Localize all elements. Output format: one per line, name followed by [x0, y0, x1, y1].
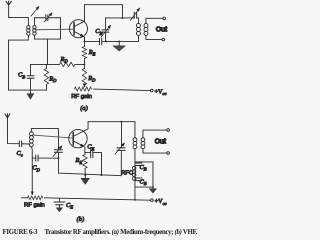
transformer T3 secondary: [143, 130, 167, 138]
wire collector rail (b): [88, 121, 135, 123]
node bypass ground junction: [152, 186, 154, 188]
wire antenna (a) lead-in: [9, 5, 29, 26]
node collector tank junction (b): [121, 121, 123, 123]
transistor Q2: [69, 129, 87, 147]
svg-text:CD: CD: [32, 165, 40, 173]
capacitor CB upper (b): [135, 163, 142, 166]
node tank ground junction: [118, 41, 120, 43]
node Vcc rail junction: [134, 199, 136, 201]
resistor RD horizontal: [59, 62, 75, 66]
transformer T2 primary: [137, 18, 139, 24]
svg-text:+Vcc: +Vcc: [155, 198, 167, 206]
potentiometer RF gain (a): [74, 87, 91, 91]
antenna (b): [5, 114, 10, 118]
variable capacitor (a tank): [104, 18, 106, 30]
inductor L1 (b input coil): [30, 129, 32, 132]
resistor RE (a): [82, 46, 86, 58]
wire bypass bottom branch: [135, 186, 153, 188]
antenna (a): [6, 1, 11, 5]
trimmer capacitor plates (a top): [134, 12, 136, 18]
terminal Out bottom (b): [167, 152, 170, 155]
capacitor CB lower (b): [135, 178, 142, 181]
transformer T1 secondary winding: [33, 26, 36, 29]
terminal Out top (a): [163, 17, 166, 20]
ground (b) bypass: [152, 187, 154, 189]
capacitor Cc series: [19, 141, 21, 147]
inductor RFC: [132, 166, 136, 170]
svg-text:RE: RE: [74, 157, 82, 165]
arrow of variable capacitor (a tank): [101, 25, 111, 37]
svg-text:Out: Out: [155, 138, 167, 145]
variable capacitor C1 plates: [46, 15, 48, 21]
arrow of variable capacitor (b output): [115, 143, 124, 154]
svg-text:(b): (b): [77, 216, 84, 223]
ground (b) CE: [56, 208, 62, 212]
svg-text:CB: CB: [139, 178, 146, 186]
node tank bottom left: [105, 41, 107, 43]
wire bypass top branch: [135, 162, 153, 187]
node bias junction (a): [84, 64, 86, 66]
potentiometer RF gain (b): [21, 197, 27, 199]
wire L1 bottom drop to wiper: [30, 147, 33, 158]
wire collector top rail (a): [84, 5, 122, 19]
wire tuned loop bottom: [34, 35, 60, 39]
svg-text:Out: Out: [156, 26, 168, 33]
wire secondary top rail: [34, 18, 60, 26]
wire bias node rail: [30, 63, 84, 65]
wire secondary bottom to bias node: [46, 39, 48, 64]
svg-text:RE: RE: [88, 49, 96, 57]
wire base tap to Q1: [35, 28, 74, 31]
tuning arrow over T1: [31, 6, 39, 16]
transformer T2 secondary: [146, 18, 163, 23]
svg-text:Cc: Cc: [16, 150, 22, 158]
svg-text:Transistor RF amplifiers. (a): Transistor RF amplifiers. (a) Medium-fre…: [44, 229, 197, 236]
wire tank bottom rail (a): [105, 40, 138, 42]
transformer T3 primary: [134, 122, 136, 138]
ground (a) input: [29, 90, 31, 94]
wire (b) input tank top rail: [31, 129, 58, 150]
node CE ground junction: [101, 174, 103, 176]
node tank top (a): [122, 17, 124, 19]
terminal +Vcc (a): [150, 89, 153, 92]
wire T1 primary bottom return to ground rail: [8, 35, 46, 90]
svg-text:RF gain: RF gain: [24, 203, 45, 209]
transformer T1 primary winding: [27, 26, 30, 29]
capacitor CN series: [84, 40, 99, 42]
capacitor CD tap wire: [32, 157, 35, 159]
svg-text:FIGURE 6-3: FIGURE 6-3: [2, 229, 38, 236]
wire L1 wiper arm: [31, 158, 33, 195]
resistor RE (b): [84, 152, 86, 154]
capacitor CE (b emitter bypass): [85, 151, 90, 153]
resistor RD vertical 1: [45, 64, 47, 90]
svg-text:+Vcc: +Vcc: [154, 89, 166, 97]
svg-text:CB: CB: [139, 164, 146, 172]
capacitor CB (a) bypass: [29, 64, 31, 75]
wire tuned loop right edge: [59, 18, 61, 39]
potentiometer RF gain (a) wiper: [83, 85, 85, 87]
terminal Out bottom (a): [162, 38, 165, 41]
svg-text:CE: CE: [66, 202, 73, 210]
wire base tap to Q2: [32, 135, 73, 138]
svg-text:(a): (a): [80, 105, 87, 112]
node CD junction: [58, 157, 60, 159]
wire to Vcc (a): [93, 89, 150, 91]
terminal +Vcc (b): [151, 199, 154, 202]
wire tank top rail (a): [105, 17, 138, 19]
node emitter junction (a): [84, 41, 86, 43]
ground (b) emitter: [84, 175, 86, 178]
arrow of variable capacitor C1: [44, 13, 52, 22]
svg-text:RD: RD: [48, 75, 57, 83]
svg-text:RD: RD: [87, 75, 96, 83]
arrow of trimmer capacitor (a top): [130, 8, 139, 20]
resistor RD vertical 2: [83, 64, 85, 68]
variable capacitor (b input) plates: [54, 150, 62, 153]
variable capacitor (b output tank): [120, 122, 122, 148]
transistor Q1: [69, 20, 87, 38]
wire to Vcc (b): [44, 198, 150, 200]
svg-text:RFC: RFC: [121, 171, 134, 177]
capacitor CE (b bottom bypass): [58, 198, 60, 202]
ground (a) tank: [118, 41, 120, 45]
wire (b) ground rail: [58, 158, 121, 176]
node RE ground junction: [84, 174, 86, 176]
svg-text:RD: RD: [59, 56, 68, 64]
svg-text:CB: CB: [18, 72, 25, 80]
wire antenna (b) lead: [7, 118, 19, 144]
svg-text:CE: CE: [87, 144, 94, 152]
arrow of variable capacitor (b input): [53, 146, 62, 157]
terminal Out top (b): [167, 129, 170, 132]
svg-text:RF gain: RF gain: [71, 94, 92, 100]
